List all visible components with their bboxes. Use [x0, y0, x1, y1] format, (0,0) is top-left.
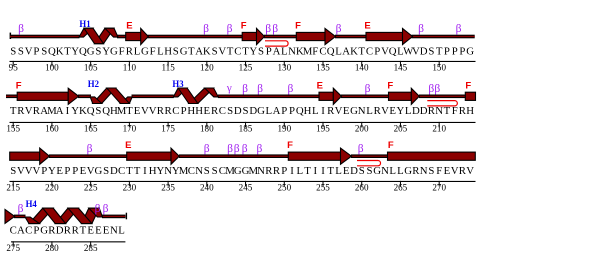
wire row2 seg1	[6, 95, 18, 99]
svg-text:110: 110	[123, 63, 137, 73]
svg-text:β: β	[456, 23, 462, 35]
svg-text:β: β	[227, 23, 233, 35]
helix H1	[79, 28, 118, 44]
svg-text:270: 270	[432, 183, 446, 193]
svg-text:β: β	[272, 23, 278, 35]
svg-text:β: β	[227, 143, 233, 155]
svg-text:195: 195	[316, 124, 330, 134]
wire row1 seg5	[335, 35, 367, 39]
svg-text:215: 215	[6, 183, 20, 193]
svg-text:235: 235	[161, 183, 175, 193]
svg-text:105: 105	[84, 63, 98, 73]
svg-text:100: 100	[45, 63, 59, 73]
svg-text:β: β	[234, 143, 240, 155]
svg-text:F: F	[465, 80, 471, 91]
svg-text:155: 155	[6, 124, 20, 134]
svg-text:140: 140	[355, 63, 369, 73]
svg-text:E: E	[317, 80, 323, 91]
svg-text:200: 200	[355, 124, 369, 134]
wire row2 seg2	[78, 95, 91, 99]
wire row3 seg2	[179, 154, 289, 158]
svg-text:β: β	[204, 143, 210, 155]
svg-text:255: 255	[316, 183, 330, 193]
svg-text:240: 240	[200, 183, 214, 193]
svg-text:225: 225	[84, 183, 98, 193]
svg-text:β: β	[18, 203, 24, 215]
wire row2 seg3b	[218, 95, 320, 99]
svg-text:β: β	[103, 203, 109, 215]
svg-text:285: 285	[84, 243, 98, 253]
wire row1 seg6	[412, 35, 475, 39]
svg-text:260: 260	[355, 183, 369, 193]
svg-text:265: 265	[394, 183, 408, 193]
strand F bar row2	[465, 92, 475, 100]
svg-text:135: 135	[316, 63, 330, 73]
svg-text:245: 245	[239, 183, 253, 193]
wire row2 seg4	[341, 95, 389, 99]
beta hairpin row2	[427, 101, 457, 106]
svg-text:230: 230	[123, 183, 137, 193]
svg-text:CACPGRDRRTEEENL: CACPGRDRRTEEENL	[10, 225, 125, 237]
strand E arrow row2	[319, 88, 342, 104]
wire row1 seg3	[148, 35, 244, 39]
strand F arrow row3 (cont)	[10, 148, 50, 164]
helix H3	[173, 88, 218, 104]
strand F bar row3	[388, 152, 476, 160]
strand F arrow row2	[17, 88, 78, 104]
svg-text:F: F	[295, 21, 301, 32]
svg-text:β: β	[242, 143, 248, 155]
wire row1 seg2	[117, 35, 127, 39]
beta hairpin row3	[357, 161, 381, 166]
svg-text:175: 175	[161, 124, 175, 134]
strand E arrow row1	[126, 28, 149, 44]
wire row1 seg1	[10, 35, 80, 39]
svg-text:SVVVPYEPPEVGSDCTTIHYNYMCNSSCMG: SVVVPYEPPEVGSDCTTIHYNYMCNSSCMGGMNRRPILTI…	[10, 165, 474, 177]
svg-text:130: 130	[277, 63, 291, 73]
svg-text:115: 115	[161, 63, 175, 73]
wire row4 seg2	[102, 215, 125, 219]
wire row3 seg3	[351, 154, 388, 158]
svg-text:H4: H4	[26, 200, 37, 210]
svg-text:β: β	[434, 83, 440, 95]
wire row1 seg4	[264, 35, 297, 39]
svg-text:β: β	[256, 143, 262, 155]
svg-text:β: β	[257, 83, 263, 95]
svg-text:160: 160	[45, 124, 59, 134]
svg-text:120: 120	[200, 63, 214, 73]
ruler row 1	[9, 61, 476, 73]
chain start tick	[10, 33, 12, 39]
svg-text:150: 150	[432, 63, 446, 73]
strand G arrowhead row4 (cont)	[5, 209, 15, 223]
svg-text:F: F	[388, 140, 394, 151]
svg-text:H2: H2	[88, 80, 99, 90]
helix H4	[25, 208, 103, 224]
svg-text:185: 185	[239, 124, 253, 134]
svg-text:F: F	[241, 21, 247, 32]
strand E arrow row1 b	[366, 28, 413, 44]
svg-text:TRVRAMAIYKQSQHMTEVVRRCPHHERCSD: TRVRAMAIYKQSQHMTEVVRRCPHHERCSDSDGLAPPQHL…	[10, 105, 474, 117]
helix H2	[90, 88, 132, 104]
svg-text:β: β	[18, 23, 24, 35]
strand F arrow row2 b	[389, 88, 420, 104]
svg-text:β: β	[287, 83, 293, 95]
strand E arrow row3	[127, 148, 180, 164]
svg-text:β: β	[242, 83, 248, 95]
svg-text:F: F	[16, 80, 22, 91]
wire row4 seg1	[14, 215, 26, 219]
ruler row 2	[6, 122, 475, 134]
svg-text:280: 280	[45, 243, 59, 253]
svg-text:β: β	[265, 23, 271, 35]
svg-text:180: 180	[200, 124, 214, 134]
svg-text:β: β	[336, 23, 342, 35]
svg-text:205: 205	[394, 124, 408, 134]
svg-text:β: β	[365, 83, 371, 95]
svg-text:F: F	[287, 140, 293, 151]
strand F arrow row1 b	[296, 28, 335, 44]
ruler row 4	[6, 241, 125, 253]
svg-text:165: 165	[84, 124, 98, 134]
svg-text:210: 210	[432, 124, 446, 134]
ruler row 3	[6, 181, 475, 193]
svg-text:E: E	[126, 21, 132, 32]
svg-text:β: β	[203, 23, 209, 35]
svg-text:220: 220	[45, 183, 59, 193]
svg-text:SSVPSQKTYQGSYGFRLGFLHSGTAKSVTC: SSVPSQKTYQGSYGFRLGFLHSGTAKSVTCTYSPALNKMF…	[10, 45, 474, 57]
svg-text:β: β	[87, 143, 93, 155]
svg-text:β: β	[95, 203, 101, 215]
svg-text:β: β	[418, 23, 424, 35]
svg-text:190: 190	[277, 124, 291, 134]
svg-text:145: 145	[394, 63, 408, 73]
svg-text:E: E	[125, 140, 131, 151]
svg-text:F: F	[387, 80, 393, 91]
svg-text:275: 275	[6, 243, 20, 253]
svg-text:β: β	[358, 143, 364, 155]
svg-text:95: 95	[9, 63, 19, 73]
svg-text:γ: γ	[226, 82, 232, 94]
svg-text:125: 125	[239, 63, 253, 73]
beta hairpin row1	[265, 41, 288, 46]
svg-text:250: 250	[277, 183, 291, 193]
strand F arrow row3 b	[288, 148, 351, 164]
strand F arrow row1	[242, 28, 264, 44]
wire row2 seg5	[419, 95, 466, 99]
wire row3 seg1	[49, 154, 128, 158]
svg-text:E: E	[364, 21, 370, 32]
chain end tick	[126, 213, 127, 220]
svg-text:170: 170	[123, 124, 137, 134]
wire row2 seg3	[132, 95, 174, 99]
